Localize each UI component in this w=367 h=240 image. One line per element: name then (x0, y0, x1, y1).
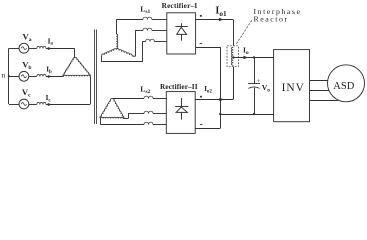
diode D1 (181, 23, 183, 27)
wire line2 to rectifier II (153, 113, 166, 115)
AC source Va (19, 43, 29, 53)
wire star top to line1 (116, 20, 118, 34)
wire star right to line2 (132, 55, 135, 58)
svg-text:Reactor: Reactor (254, 15, 289, 24)
inductor Ls1 line3 (146, 39, 155, 41)
wire Io2 positive output (195, 99, 233, 101)
AC source Vc (19, 99, 29, 109)
arrow Ic (48, 103, 52, 106)
wire bus to source Vb (9, 76, 19, 78)
svg-text:Vb: Vb (22, 60, 31, 72)
svg-text:Vo: Vo (262, 83, 270, 94)
wire inverter output 2 (310, 90, 329, 92)
svg-text:Va: Va (23, 32, 32, 44)
svg-text:Io: Io (243, 46, 249, 57)
wire capacitor top (254, 58, 256, 84)
interphase reactor box (227, 46, 238, 67)
primary delta winding right side (75, 58, 90, 77)
wire rectifier I negative (196, 47, 221, 49)
wire line3 to rectifier I (154, 41, 166, 43)
secondary star left coil (102, 49, 117, 56)
rectifier U1 box (167, 13, 196, 54)
node dot positive bus cap (253, 56, 255, 58)
arrow Io (243, 56, 248, 59)
svg-text:Ls1: Ls1 (140, 5, 150, 16)
node n neutral bus (8, 48, 10, 104)
wire reactor bottom leg (233, 67, 235, 100)
svg-text:Rectifier–I: Rectifier–I (162, 1, 198, 10)
diode D2 (181, 98, 183, 107)
wire line1 to rectifier I (152, 19, 167, 21)
inductor phase b (37, 74, 46, 76)
inductor Ls1 line2 (143, 28, 152, 30)
node dot rectifier I positive (200, 15, 202, 17)
wire inverter output 3 (310, 100, 339, 102)
pointer line to reactor (236, 20, 251, 44)
svg-text:Ic: Ic (46, 94, 52, 103)
svg-text:Vc: Vc (22, 87, 31, 99)
svg-text:Ia: Ia (48, 37, 54, 46)
wire negative bus (220, 114, 273, 116)
interphase reactor winding (231, 47, 233, 65)
node dot reactor tap (232, 56, 234, 58)
arrow Ia (48, 47, 52, 50)
wire rectifier II negative (195, 128, 220, 130)
secondary delta base (101, 117, 124, 118)
wire capacitor bottom (254, 88, 256, 114)
arrow Ib (48, 75, 52, 78)
wire Vc to inductor (29, 104, 37, 106)
inductor Ls2 line3 (144, 122, 153, 124)
capacitor C plate bottom (248, 87, 259, 88)
inductor Ls2 line2 (144, 111, 153, 113)
inductor phase a (37, 46, 46, 48)
wire inverter output 1 (310, 80, 328, 82)
inductor phase c (37, 102, 46, 104)
inductor Ls2 line1 (144, 96, 153, 98)
motor ASD (328, 65, 365, 102)
svg-text:Io1: Io1 (215, 6, 227, 18)
wire bus to source Vc (9, 104, 19, 106)
wire Va to inductor (29, 48, 37, 50)
wire star left to line3 (100, 55, 103, 58)
wire delta left to line3 (100, 119, 102, 125)
inverter INV box (274, 50, 310, 122)
wire line1 to rectifier II (153, 98, 166, 100)
wire phase c to primary right corner (46, 104, 90, 106)
wire line2 to rectifier I (152, 30, 167, 32)
wire Io1 down to reactor (233, 20, 235, 46)
secondary delta right side (112, 99, 124, 119)
svg-text:n: n (1, 71, 5, 80)
svg-text:Rectifier–II: Rectifier–II (160, 82, 198, 91)
wire reactor center tap Io (233, 57, 273, 59)
svg-text:Ib: Ib (46, 66, 52, 75)
secondary star right coil (116, 49, 132, 56)
wire Io2 up to reactor (233, 67, 235, 100)
wire Io1 positive output (196, 19, 234, 21)
svg-text:+: + (257, 78, 261, 85)
AC source Vb (19, 71, 29, 81)
label minus rectifier II (200, 124, 202, 126)
label minus rectifier I (200, 43, 203, 45)
arrow Io1 (219, 18, 224, 21)
capacitor C plate top (248, 83, 260, 85)
node dot rectifier II positive (200, 96, 202, 98)
node dot negative bus cap (253, 113, 255, 115)
wire phase b to primary left corner (46, 76, 64, 78)
wire Vb to inductor (29, 76, 37, 78)
inductor Ls1 line1 (143, 17, 152, 19)
secondary star top coil (116, 34, 117, 49)
rectifier U2 box (166, 92, 195, 134)
svg-text:INV: INV (282, 82, 305, 94)
transformer core (94, 30, 96, 125)
node dot negative bus (219, 113, 221, 115)
wire line3 to rectifier II (153, 124, 166, 126)
wire bus to source Va (9, 48, 19, 50)
primary delta winding base (64, 75, 90, 76)
node dot bus phase b (8, 75, 10, 77)
wire delta right to line2 (123, 118, 128, 120)
svg-text:ASD: ASD (333, 81, 354, 92)
arrow Io2 (219, 98, 224, 101)
svg-text:Ls2: Ls2 (140, 84, 150, 95)
wire phase a to primary apex (46, 48, 75, 50)
primary delta winding left side (63, 58, 75, 77)
wire delta apex to line1 (112, 98, 144, 100)
secondary delta left side (100, 99, 112, 119)
svg-text:Io2: Io2 (204, 85, 212, 94)
